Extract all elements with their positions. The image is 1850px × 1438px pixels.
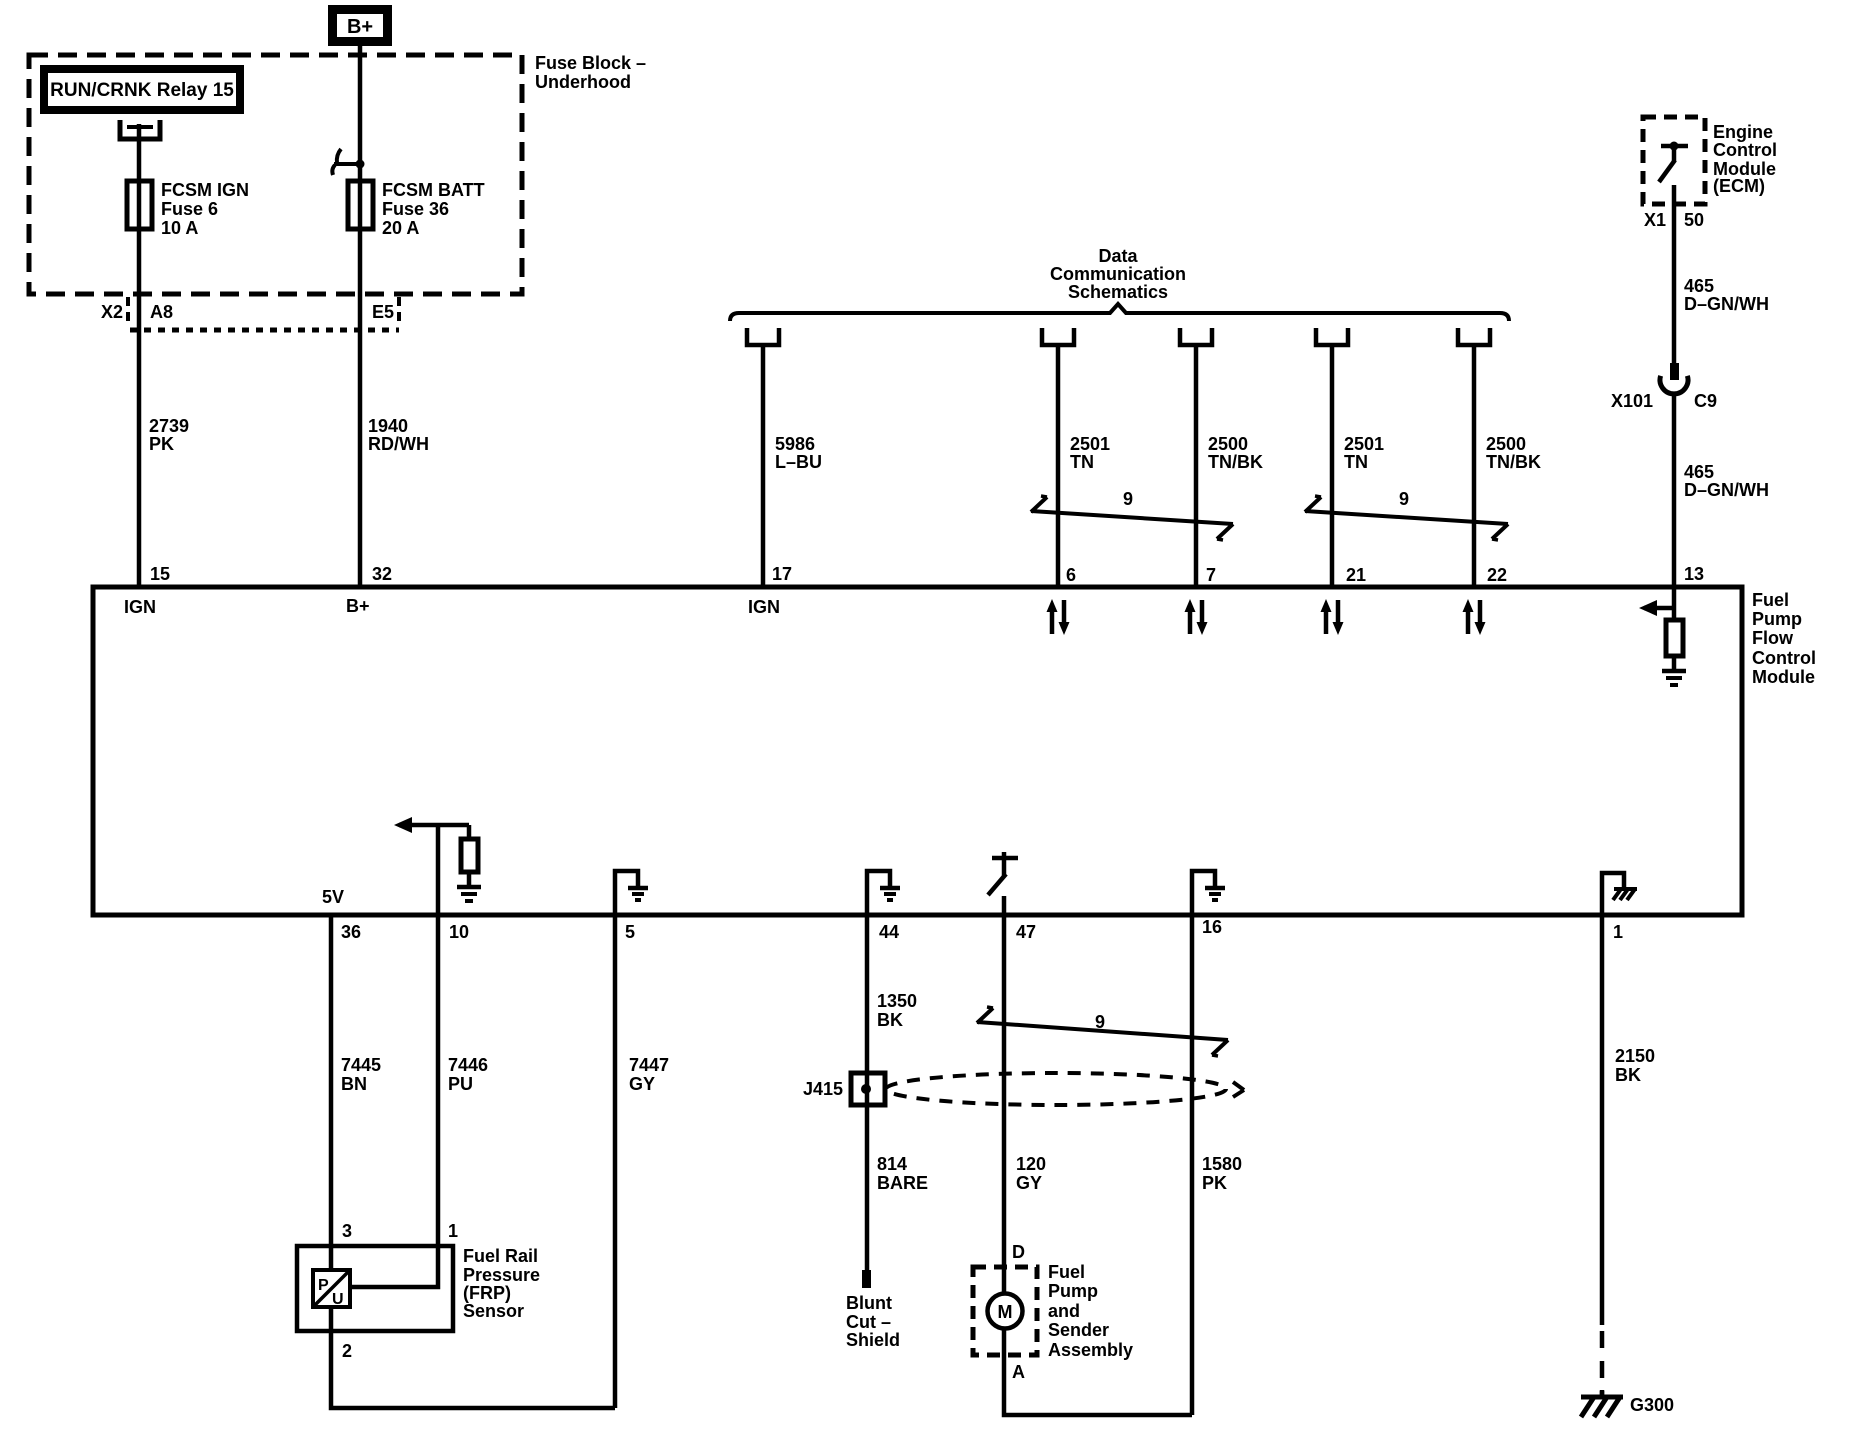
svg-text:Control: Control xyxy=(1713,140,1777,160)
svg-text:IGN: IGN xyxy=(124,597,156,617)
svg-text:TN/BK: TN/BK xyxy=(1486,452,1541,472)
svg-text:PK: PK xyxy=(1202,1173,1227,1193)
svg-text:17: 17 xyxy=(772,564,792,584)
svg-text:RD/WH: RD/WH xyxy=(368,434,429,454)
connector (wire 2501 pin 21) xyxy=(1316,328,1348,345)
svg-text:U: U xyxy=(332,1291,344,1308)
svg-text:L–BU: L–BU xyxy=(775,452,822,472)
svg-text:BARE: BARE xyxy=(877,1173,928,1193)
svg-text:Flow: Flow xyxy=(1752,628,1794,648)
svg-text:9: 9 xyxy=(1095,1012,1105,1032)
label 2501 TN xyxy=(1070,434,1110,472)
wire 2739 PK xyxy=(137,124,142,587)
svg-text:2500: 2500 xyxy=(1208,434,1248,454)
label 465 D-GN/WH xyxy=(1684,276,1769,314)
svg-text:FCSM BATT: FCSM BATT xyxy=(382,180,485,200)
svg-text:13: 13 xyxy=(1684,564,1704,584)
svg-text:Communication: Communication xyxy=(1050,264,1186,284)
label 120 GY xyxy=(1016,1154,1046,1193)
svg-text:A: A xyxy=(1012,1362,1025,1382)
svg-text:16: 16 xyxy=(1202,917,1222,937)
svg-text:B+: B+ xyxy=(346,596,370,616)
label 2500 TN/BK xyxy=(1486,434,1541,472)
svg-text:X2: X2 xyxy=(101,302,123,322)
label 1350 BK xyxy=(877,991,917,1030)
svg-text:(FRP): (FRP) xyxy=(463,1283,511,1303)
svg-text:465: 465 xyxy=(1684,276,1714,296)
internal ground at pin 5 xyxy=(615,871,648,915)
wire 465 D-GN/WH upper xyxy=(1672,185,1677,365)
svg-text:D: D xyxy=(1012,1242,1025,1262)
wire 1940 RD/WH xyxy=(358,46,363,587)
label 7446 PU xyxy=(448,1055,488,1094)
svg-text:47: 47 xyxy=(1016,922,1036,942)
svg-text:BK: BK xyxy=(1615,1065,1641,1085)
twisted pair symbol (pins 44-16 circuit) xyxy=(977,1007,1228,1056)
svg-text:10: 10 xyxy=(449,922,469,942)
connector strip X2 A8 E5 xyxy=(101,297,399,330)
serial data arrows pin 7 xyxy=(1185,599,1208,635)
blunt cut shield termination xyxy=(846,1270,900,1350)
label 7447 GY xyxy=(629,1055,669,1094)
svg-text:Pump: Pump xyxy=(1752,609,1802,629)
fuse F36 FCSM BATT xyxy=(348,180,485,238)
svg-text:1: 1 xyxy=(448,1221,458,1241)
svg-text:D–GN/WH: D–GN/WH xyxy=(1684,294,1769,314)
svg-text:Fuse 6: Fuse 6 xyxy=(161,199,218,219)
fuse block underhood dashed box xyxy=(29,55,522,294)
wire 2500 TN/BK (pin 22) xyxy=(1472,345,1477,587)
svg-text:B+: B+ xyxy=(347,16,373,38)
label 5986 L-BU xyxy=(775,434,822,472)
svg-text:PK: PK xyxy=(149,434,174,454)
svg-text:J415: J415 xyxy=(803,1079,843,1099)
svg-text:Data: Data xyxy=(1098,246,1138,266)
svg-text:A8: A8 xyxy=(150,302,173,322)
label Fuel Pump and Sender Assembly xyxy=(1048,1262,1133,1360)
inline connector X101 C9 xyxy=(1611,363,1717,411)
twisted pair symbol (pins 21-22) xyxy=(1305,489,1508,540)
label 7445 BN xyxy=(341,1055,381,1094)
relay RUN/CRNK Relay 15 xyxy=(40,65,244,114)
svg-text:BN: BN xyxy=(341,1074,367,1094)
svg-text:814: 814 xyxy=(877,1154,907,1174)
svg-text:IGN: IGN xyxy=(748,597,780,617)
shield ellipse (drain wire loop) xyxy=(886,1073,1244,1105)
svg-text:7445: 7445 xyxy=(341,1055,381,1075)
wire 2501 TN (pin 6) xyxy=(1056,345,1061,587)
internal ground at pin 16 xyxy=(1192,871,1225,915)
wire 7445 BN (pin 36) xyxy=(329,915,334,1272)
internal switch at pin 47 xyxy=(988,852,1018,915)
svg-text:G300: G300 xyxy=(1630,1395,1674,1415)
svg-text:120: 120 xyxy=(1016,1154,1046,1174)
svg-text:1940: 1940 xyxy=(368,416,408,436)
svg-text:Fuse 36: Fuse 36 xyxy=(382,199,449,219)
svg-text:Fuel Rail: Fuel Rail xyxy=(463,1246,538,1266)
svg-text:5986: 5986 xyxy=(775,434,815,454)
svg-text:(ECM): (ECM) xyxy=(1713,176,1765,196)
svg-text:PU: PU xyxy=(448,1074,473,1094)
serial data arrows pin 22 xyxy=(1463,599,1486,635)
connector (wire 5986) xyxy=(747,328,779,345)
wire 2501 TN (pin 21) xyxy=(1330,345,1335,587)
svg-text:D–GN/WH: D–GN/WH xyxy=(1684,480,1769,500)
label Fuel Rail Pressure (FRP) Sensor xyxy=(463,1246,540,1321)
splice J415 xyxy=(803,1073,885,1105)
wire 2150 BK (pin 1) xyxy=(1600,915,1605,1325)
svg-text:Control: Control xyxy=(1752,648,1816,668)
svg-text:TN: TN xyxy=(1070,452,1094,472)
label 2500 TN/BK xyxy=(1208,434,1263,472)
label Data Communication Schematics xyxy=(1050,246,1186,302)
connector (wire 2501 pin 6) xyxy=(1042,328,1074,345)
svg-text:50: 50 xyxy=(1684,210,1704,230)
wire 465 D-GN/WH lower xyxy=(1672,396,1677,587)
svg-text:Fuel: Fuel xyxy=(1048,1262,1085,1282)
svg-text:44: 44 xyxy=(879,922,899,942)
serial data arrows pin 21 xyxy=(1321,599,1344,635)
svg-text:6: 6 xyxy=(1066,565,1076,585)
power symbol B+ xyxy=(328,5,392,46)
svg-text:10 A: 10 A xyxy=(161,218,198,238)
svg-text:Sensor: Sensor xyxy=(463,1301,524,1321)
svg-text:X1: X1 xyxy=(1644,210,1666,230)
fuel pump assembly dashed box xyxy=(973,1267,1037,1355)
wire 120 GY (pin 47) xyxy=(1002,915,1007,1294)
ground G300 xyxy=(1581,1390,1674,1417)
label Fuse Block - Underhood xyxy=(535,53,646,92)
svg-text:Fuse Block –: Fuse Block – xyxy=(535,53,646,73)
brace over data communication wires xyxy=(730,304,1509,321)
svg-text:5V: 5V xyxy=(322,887,344,907)
ECM driver symbol xyxy=(1659,142,1688,183)
ECM Engine Control Module dashed box xyxy=(1643,117,1705,204)
svg-text:22: 22 xyxy=(1487,565,1507,585)
svg-text:36: 36 xyxy=(341,922,361,942)
svg-text:TN/BK: TN/BK xyxy=(1208,452,1263,472)
wire 7446 PU (pin 10) xyxy=(352,915,438,1287)
wire 814 BARE xyxy=(877,1154,928,1193)
svg-text:Blunt: Blunt xyxy=(846,1293,892,1313)
svg-text:X101: X101 xyxy=(1611,391,1653,411)
wire 2500 TN/BK (pin 7) xyxy=(1194,345,1199,587)
svg-text:TN: TN xyxy=(1344,452,1368,472)
label 2150 BK xyxy=(1615,1046,1655,1085)
label 1580 PK xyxy=(1202,1154,1242,1193)
svg-text:7447: 7447 xyxy=(629,1055,669,1075)
connector (wire 2500 pin 22) xyxy=(1458,328,1490,345)
wire motor to pump return xyxy=(1004,1329,1192,1415)
label 2501 TN xyxy=(1344,434,1384,472)
svg-text:15: 15 xyxy=(150,564,170,584)
svg-text:E5: E5 xyxy=(372,302,394,322)
wire pin 2 to pin 5 return xyxy=(331,1307,615,1408)
wire label 1940 RD/WH xyxy=(368,416,429,454)
svg-text:2501: 2501 xyxy=(1344,434,1384,454)
svg-text:5: 5 xyxy=(625,922,635,942)
internal chassis ground at pin 1 xyxy=(1602,873,1637,915)
svg-text:3: 3 xyxy=(342,1221,352,1241)
serial data arrows pin 6 xyxy=(1047,599,1070,635)
internal 5V pull-up at pin 10: arrow, resistor, ground xyxy=(394,817,481,915)
wire 1350 BK (pin 44) xyxy=(865,915,870,1273)
svg-text:Underhood: Underhood xyxy=(535,72,631,92)
svg-text:1: 1 xyxy=(1613,922,1623,942)
twisted pair symbol (pins 6-7) xyxy=(1031,489,1233,540)
internal ground at pin 44 xyxy=(867,871,900,915)
svg-text:Sender: Sender xyxy=(1048,1320,1109,1340)
module box Fuel Pump Flow Control Module xyxy=(93,587,1742,915)
wire label 2739 PK xyxy=(149,416,189,454)
svg-text:GY: GY xyxy=(1016,1173,1042,1193)
svg-text:21: 21 xyxy=(1346,565,1366,585)
svg-text:7: 7 xyxy=(1206,565,1216,585)
wire 2150 BK dashed continuation xyxy=(1600,1331,1605,1396)
svg-text:Assembly: Assembly xyxy=(1048,1340,1133,1360)
motor M fuel pump xyxy=(988,1294,1023,1329)
svg-text:20 A: 20 A xyxy=(382,218,419,238)
svg-text:BK: BK xyxy=(877,1010,903,1030)
svg-text:2: 2 xyxy=(342,1341,352,1361)
label Engine Control Module (ECM) xyxy=(1713,122,1777,196)
svg-text:M: M xyxy=(998,1302,1013,1322)
circuit breaker element above fuse 36 xyxy=(332,149,364,175)
svg-text:2150: 2150 xyxy=(1615,1046,1655,1066)
svg-text:RUN/CRNK Relay 15: RUN/CRNK Relay 15 xyxy=(50,80,234,101)
svg-text:and: and xyxy=(1048,1301,1080,1321)
pin X1 50 xyxy=(1644,210,1704,230)
svg-text:Pump: Pump xyxy=(1048,1281,1098,1301)
wire 5986 L-BU xyxy=(761,345,766,587)
relay contact symbol xyxy=(120,120,160,139)
svg-text:465: 465 xyxy=(1684,462,1714,482)
svg-text:1350: 1350 xyxy=(877,991,917,1011)
wire 1580 PK (pin 16) xyxy=(1190,915,1195,1415)
label 465 D-GN/WH xyxy=(1684,462,1769,500)
svg-text:7446: 7446 xyxy=(448,1055,488,1075)
svg-text:Shield: Shield xyxy=(846,1330,900,1350)
FRP sensor outer box xyxy=(297,1246,453,1331)
internal termination at pin 13: arrow, resistor, ground xyxy=(1639,587,1686,685)
svg-text:9: 9 xyxy=(1123,489,1133,509)
svg-text:Fuel: Fuel xyxy=(1752,590,1789,610)
svg-text:Schematics: Schematics xyxy=(1068,282,1168,302)
svg-text:9: 9 xyxy=(1399,489,1409,509)
connector (wire 2500 pin 7) xyxy=(1180,328,1212,345)
wire 7447 GY (pin 5) xyxy=(613,915,618,1408)
svg-text:GY: GY xyxy=(629,1074,655,1094)
FRP sensor P/U element xyxy=(313,1270,350,1308)
svg-text:32: 32 xyxy=(372,564,392,584)
svg-text:Engine: Engine xyxy=(1713,122,1773,142)
svg-text:1580: 1580 xyxy=(1202,1154,1242,1174)
svg-text:2500: 2500 xyxy=(1486,434,1526,454)
svg-text:C9: C9 xyxy=(1694,391,1717,411)
fuse F6 FCSM IGN xyxy=(127,180,249,238)
svg-text:Module: Module xyxy=(1752,667,1815,687)
svg-text:2501: 2501 xyxy=(1070,434,1110,454)
label Fuel Pump Flow Control Module xyxy=(1752,590,1816,687)
svg-text:P: P xyxy=(318,1277,329,1294)
svg-text:Cut –: Cut – xyxy=(846,1312,891,1332)
svg-text:FCSM IGN: FCSM IGN xyxy=(161,180,249,200)
svg-text:2739: 2739 xyxy=(149,416,189,436)
svg-text:Pressure: Pressure xyxy=(463,1265,540,1285)
